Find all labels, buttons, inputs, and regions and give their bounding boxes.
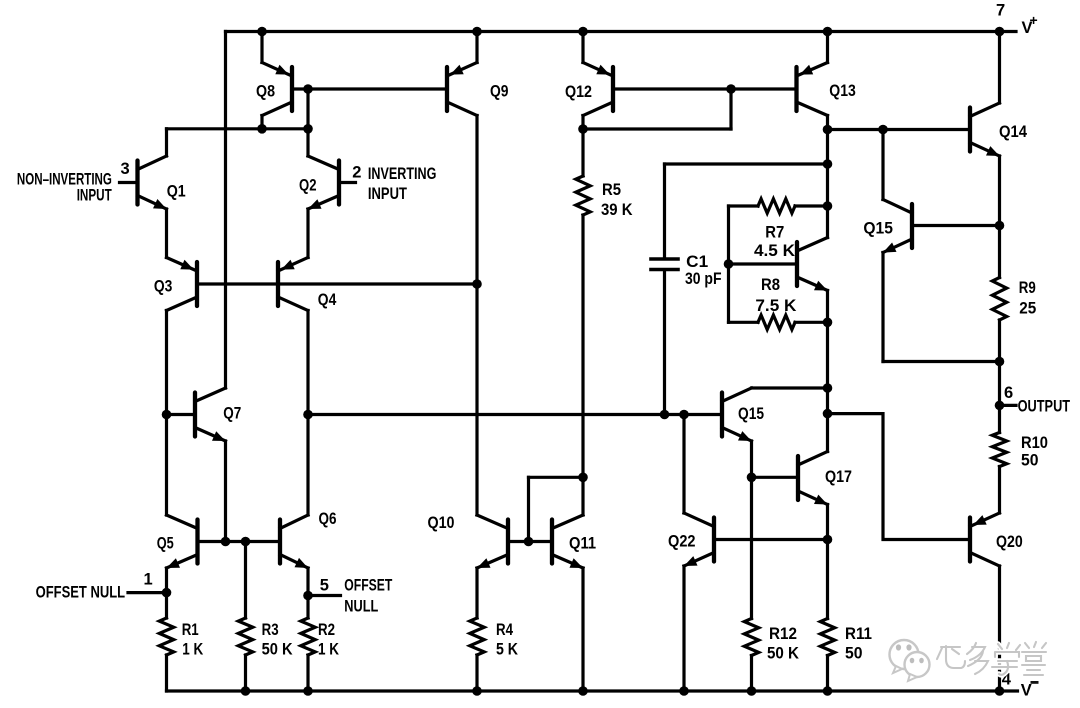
transistor Q2	[308, 156, 339, 209]
wire Q15 emitter drop (right)	[881, 253, 884, 362]
wire R8 right lead	[795, 321, 828, 324]
wire Q22 base line to R11 top	[714, 538, 828, 541]
resistor R7 4.5K	[758, 199, 795, 213]
transistor Q7	[195, 388, 226, 441]
svg-text:R4: R4	[496, 621, 514, 639]
wire Q9 collector vertical to Q10	[475, 116, 478, 516]
wire R4 to V- rail	[475, 655, 478, 691]
wire R8 left lead	[729, 321, 759, 324]
transistor Q20	[970, 513, 1000, 566]
junction top rail / Q13 emitter	[823, 27, 833, 37]
wire Q8 base node drop	[306, 89, 309, 129]
wire Q22 emitter to V- rail	[682, 566, 685, 691]
wire Q10/Q11 base tie riser	[527, 477, 530, 541]
V- rail (pin 4)	[167, 689, 1018, 692]
label NON-INVERTING INPUT	[17, 170, 112, 204]
svg-text:Q22: Q22	[668, 533, 696, 551]
wire Q12 collector node to R5	[581, 129, 584, 176]
wire Q15 collector link	[752, 386, 828, 389]
svg-text:+: +	[1030, 12, 1038, 28]
wire Q5-Q6 base line	[198, 540, 281, 543]
junction offset null 5	[303, 591, 313, 601]
resistor R9 25	[992, 278, 1006, 321]
wire R7 right lead	[795, 204, 828, 207]
wire Q17 base line	[752, 476, 799, 479]
svg-text:6: 6	[1004, 384, 1013, 402]
resistor R2 1K	[301, 618, 315, 655]
svg-text:50: 50	[1021, 452, 1039, 470]
junction Q4 collector / Q15 base line	[303, 410, 313, 420]
wire Q13 emitter riser	[826, 32, 829, 63]
junction Q8 collector node	[257, 124, 267, 134]
junction offset null 1	[162, 588, 172, 598]
wire Q15 emitter to R12	[750, 477, 753, 618]
svg-text:R7: R7	[765, 224, 784, 242]
junction R7 right	[823, 201, 833, 211]
junction Q10/Q11 bases	[524, 537, 534, 547]
wire Q14 collector riser	[998, 32, 1001, 104]
svg-text:Q1: Q1	[167, 183, 186, 201]
wire Q12 emitter riser	[581, 32, 584, 63]
junction V- rail / R2	[303, 686, 313, 696]
junction C1 top / Q13 collector node	[823, 159, 833, 169]
junction top rail / Q8 emitter	[257, 27, 267, 37]
svg-text:C1: C1	[686, 253, 708, 271]
svg-text:5 K: 5 K	[496, 640, 518, 658]
V+ rail (pin 7)	[226, 30, 1017, 33]
resistor R4 5K	[470, 618, 484, 655]
wire C1 top to Q13 collector node	[665, 162, 828, 165]
wire Q11 emitter to V- rail	[581, 568, 584, 691]
svg-text:1 K: 1 K	[182, 640, 203, 658]
wire Q12-Q13 base line	[613, 87, 797, 90]
transistor Q22	[684, 513, 714, 566]
transistor Q6	[280, 515, 308, 568]
svg-text:7.5 K: 7.5 K	[755, 297, 796, 315]
capacitor C1 30pF	[651, 259, 678, 270]
wire Q5 emitter to offset null 1	[165, 568, 168, 593]
junction V- rail / R12	[747, 686, 757, 696]
svg-text:4.5 K: 4.5 K	[754, 242, 795, 260]
resistor R8 7.5K	[758, 315, 795, 329]
wire R5 to Q11 collector	[581, 215, 584, 515]
wire offset null 1 node to R1	[165, 593, 168, 618]
junction Q22 collector	[679, 410, 689, 420]
transistor Q17	[798, 452, 828, 505]
svg-text:R1: R1	[182, 621, 199, 639]
wire Q10-Q11 base line	[508, 540, 552, 543]
svg-text:Q10: Q10	[428, 514, 455, 532]
junction Q17 base / Q15 emitter	[747, 473, 757, 483]
transistor Q10	[477, 515, 508, 568]
junction Q15 right base / output vertical	[995, 221, 1005, 231]
transistor Q11	[552, 515, 583, 568]
svg-text:Q3: Q3	[154, 278, 173, 296]
svg-text:Q2: Q2	[299, 177, 317, 195]
resistor R10 50	[992, 433, 1006, 467]
wire R3 hanger	[244, 542, 247, 619]
resistor R5 39K	[576, 176, 590, 215]
junction V- rail / R3	[241, 686, 251, 696]
transistor Q18 (VBE multiplier, unlabeled)	[797, 238, 828, 291]
junction Q10/Q11 base tie / R5 vertical	[578, 473, 588, 483]
wire Q18 emitter down to Q17 collector (R8/Q15/Q20 taps)	[826, 291, 829, 452]
junction top rail / Q14 collector (pin 7)	[995, 27, 1005, 37]
svg-text:Q8: Q8	[256, 83, 275, 101]
label V-	[1021, 681, 1039, 699]
junction R8 right	[823, 318, 833, 328]
svg-text:R12: R12	[769, 625, 797, 643]
wire Q8 emitter riser	[260, 32, 263, 63]
svg-text:50 K: 50 K	[262, 640, 293, 658]
pin 3 lead (non-inverting input)	[120, 181, 138, 184]
wire R2 to V- rail	[306, 655, 309, 691]
svg-text:Q14: Q14	[999, 123, 1028, 141]
wire Q20 collector to V- rail	[998, 566, 1001, 691]
junction V- rail / Q20 collector (pin 4)	[995, 686, 1005, 696]
pin 1 lead (offset null)	[128, 591, 167, 594]
wire Q12 collector drop	[581, 116, 584, 130]
svg-text:50: 50	[845, 645, 863, 663]
svg-text:25: 25	[1019, 300, 1036, 318]
svg-text:INVERTING: INVERTING	[368, 165, 437, 183]
pin 5 lead (offset null)	[308, 594, 341, 597]
transistor Q9	[447, 63, 477, 116]
wire Q4 collector vertical to Q6 collector	[306, 311, 309, 516]
transistor Q15 (middle)	[722, 388, 752, 441]
svg-text:Q4: Q4	[318, 291, 337, 309]
wire R12 to V- rail	[750, 656, 753, 692]
junction Q15 right emitter / output vertical	[995, 357, 1005, 367]
svg-text:R2: R2	[318, 621, 335, 639]
wire C1 upper lead	[663, 164, 666, 258]
svg-text:1: 1	[144, 570, 153, 588]
svg-text:Q12: Q12	[565, 83, 592, 101]
wire Q8-Q9 base line	[292, 87, 447, 90]
svg-text:INPUT: INPUT	[77, 187, 112, 205]
wire Q12 collector tie (left)	[583, 127, 731, 130]
wire Q7 base line	[167, 413, 196, 416]
wire Q8 base node to Q2 collector	[306, 129, 309, 156]
svg-text:7: 7	[996, 2, 1005, 20]
pin 2 lead (inverting input)	[339, 181, 356, 184]
svg-text:R11: R11	[845, 625, 872, 643]
wire V+ left drop to Q7 collector	[224, 32, 227, 389]
junction V- rail / R4	[472, 686, 482, 696]
svg-text:30 pF: 30 pF	[685, 270, 722, 288]
svg-text:39 K: 39 K	[601, 201, 633, 219]
svg-text:R9: R9	[1019, 279, 1036, 297]
wire output node to Q20 base (down-step)	[828, 414, 971, 540]
svg-text:Q17: Q17	[825, 468, 852, 486]
wire C1 lower lead	[663, 271, 666, 415]
wire Q3 collector to Q5 collector (left vertical)	[165, 311, 168, 516]
wire R3 to V- rail	[244, 655, 247, 691]
wire Q15 base line (right)	[912, 224, 1000, 227]
junction V- rail / Q11 emitter	[578, 686, 588, 696]
wire node line Q1/Q8/Q2 collectors (y=129)	[167, 127, 309, 130]
resistor R3 50K	[238, 618, 252, 655]
svg-text:Q20: Q20	[996, 533, 1023, 551]
svg-text:OUTPUT: OUTPUT	[1018, 397, 1071, 415]
svg-text:V: V	[1021, 681, 1032, 699]
transistor Q4	[278, 258, 308, 311]
wire Q1 collector riser	[165, 129, 168, 156]
wire Q13 collector node down to Q18 collector (C1/R7 taps)	[826, 130, 829, 238]
wire Q17 emitter to R11	[826, 505, 829, 540]
junction Q3/Q4 base / Q9 collector	[472, 279, 482, 289]
resistor R12 50K	[744, 619, 758, 656]
transistor Q13	[797, 63, 828, 116]
wire Q15 emitter to output vertical	[883, 360, 1000, 363]
label INVERTING INPUT	[368, 165, 437, 203]
wire Q13 collector drop	[826, 116, 829, 130]
junction V- rail / R11	[823, 686, 833, 696]
wire Q15 emitter drop	[750, 441, 753, 477]
junction output node (pin 6)	[995, 401, 1005, 411]
transistor Q3	[167, 258, 198, 311]
wire Q22 collector riser	[682, 415, 685, 514]
svg-text:R3: R3	[262, 621, 279, 639]
svg-text:R8: R8	[761, 276, 780, 294]
svg-text:R5: R5	[602, 181, 621, 199]
junction Q22 base / Q17 emitter / R11	[823, 535, 833, 545]
svg-text:Q9: Q9	[490, 83, 509, 101]
svg-text:OFFSET: OFFSET	[344, 576, 392, 594]
svg-text:R10: R10	[1021, 434, 1048, 452]
transistor Q12	[583, 63, 613, 116]
svg-text:50 K: 50 K	[767, 645, 799, 663]
svg-text:Q15: Q15	[863, 220, 893, 238]
junction Q7 base	[162, 410, 172, 420]
wire Q12/Q13 base to collector tie (down)	[729, 89, 732, 129]
resistor R1 1K	[159, 618, 173, 655]
svg-text:1 K: 1 K	[318, 640, 339, 658]
svg-text:OFFSET NULL: OFFSET NULL	[36, 583, 126, 601]
junction V- rail / Q22 emitter	[679, 686, 689, 696]
wire offset null 5 node to R2	[306, 596, 309, 619]
wire Q2 emitter riser to Q4	[306, 209, 309, 258]
watermark logo (chat bubbles)	[890, 640, 930, 681]
svg-text:Q5: Q5	[157, 535, 174, 553]
junction Q15 mid collector / Q17 collector	[823, 383, 833, 393]
transistor Q14	[970, 103, 1000, 156]
wire Q8 collector drop	[260, 116, 263, 129]
junction Q18 base	[724, 259, 734, 269]
svg-text:Q15: Q15	[738, 405, 764, 423]
wire R11 hanger	[826, 540, 829, 619]
junction R3 top	[241, 537, 251, 547]
pin 6 lead (output)	[1000, 404, 1017, 407]
wire R11 to V- rail	[826, 656, 829, 692]
transistor Q15 (right)	[883, 200, 912, 253]
transistor Q8	[262, 63, 292, 116]
svg-text:Q13: Q13	[829, 82, 856, 100]
wire Q14 emitter to R9	[998, 156, 1001, 278]
svg-text:INPUT: INPUT	[368, 185, 407, 203]
wire Q10 emitter to R4	[475, 568, 478, 618]
junction Q12 collector / R5	[578, 124, 588, 134]
junction Q13 collector node	[823, 125, 833, 135]
wire Q6 emitter to offset null 5	[306, 568, 309, 596]
svg-text:5: 5	[320, 577, 329, 595]
junction Q2 collector node	[303, 124, 313, 134]
wire Q18/R7/R8 left vertical	[727, 206, 730, 322]
wire R1 to V- rail	[165, 655, 168, 691]
junction Q7 emitter / Q5-Q6 base	[221, 537, 231, 547]
junction top rail / Q9 emitter	[472, 27, 482, 37]
wire Q13 collector node to Q14 base	[828, 128, 971, 131]
wire Q1 emitter riser to Q3	[165, 209, 168, 258]
svg-text:Q11: Q11	[569, 535, 596, 553]
junction Q15 right collector	[878, 125, 888, 135]
label OFFSET NULL (pin 5)	[344, 576, 392, 615]
wire Q15 collector riser (right)	[881, 130, 884, 200]
wire R10 to Q20 emitter	[998, 467, 1001, 514]
wire Q7 emitter drop to Q5/Q6 base line	[224, 441, 227, 542]
junction Q12/Q13 base tie	[726, 84, 736, 94]
wire input stage output line to Q15 base (y=414.5)	[308, 413, 722, 416]
label V+	[1022, 12, 1038, 37]
wire Q10/Q11 base tie to R5 vertical	[529, 476, 584, 479]
wire R9 to output node	[998, 320, 1001, 433]
svg-text:NULL: NULL	[344, 598, 378, 616]
transistor Q5	[167, 515, 198, 568]
wire Q9 emitter riser	[475, 32, 478, 63]
wire Q3/Q4 base line	[197, 282, 477, 285]
svg-text:Q7: Q7	[223, 405, 241, 423]
junction top rail / Q12 emitter	[578, 27, 588, 37]
transistor Q1	[138, 156, 167, 209]
resistor R11 50	[820, 619, 834, 656]
svg-text:3: 3	[121, 160, 130, 178]
junction Q8 base node	[303, 84, 313, 94]
junction Q17 collector / Q20 base feed	[823, 409, 833, 419]
svg-text:Q6: Q6	[319, 510, 337, 528]
watermark text (feiduoxuetang)	[937, 642, 1046, 675]
svg-text:2: 2	[352, 164, 361, 182]
wire R7 left lead	[729, 204, 759, 207]
wire Q18 base line	[729, 262, 798, 265]
junction C1 bottom	[660, 410, 670, 420]
